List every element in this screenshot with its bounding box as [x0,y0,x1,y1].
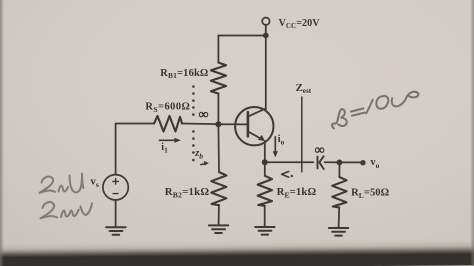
wire [265,25,267,36]
svg-text:RS=600Ω: RS=600Ω [145,102,190,114]
wire [265,36,267,110]
wire [115,200,117,227]
capacitor C2 [318,156,324,169]
svg-text:∞: ∞ [199,106,209,121]
arrow zb [201,161,209,166]
wire [325,161,340,163]
wire [217,124,220,172]
power terminal VCC [262,18,269,25]
wire [218,123,248,125]
wire [182,123,218,126]
resistor RB2 [211,172,226,205]
svg-text:RE=1kΩ: RE=1kΩ [277,186,317,199]
current arrow io [273,137,278,158]
wire [218,35,265,37]
node output [337,160,343,166]
svg-text:RB2=1kΩ: RB2=1kΩ [165,186,210,199]
ground GND1 [106,227,125,235]
ground GND4 [329,228,348,236]
node base [215,121,221,127]
ground GND2 [209,225,228,233]
wire [116,123,154,125]
current arrow ie [282,171,293,177]
annotation vs amplitude 2mv line2 [41,202,58,218]
port boundary dotted line zb [192,85,195,161]
resistor RS [154,116,182,132]
annotation vs amplitude 2mV line1 [40,177,56,193]
wire [338,208,341,228]
impedance probe line Zest [301,97,303,172]
resistor RE [258,176,272,206]
wire [264,162,266,176]
current arrow i1 [160,138,181,143]
wire [217,94,219,125]
svg-text:∞: ∞ [315,142,325,157]
ground GND3 [255,227,274,235]
wire [115,124,117,175]
resistor RL [332,177,346,208]
transistor Q1 [235,107,273,145]
wire [264,141,266,162]
resistor RB1 [211,63,226,94]
svg-text:RB1=16kΩ: RB1=16kΩ [160,68,208,80]
svg-text:RL=50Ω: RL=50Ω [351,188,390,200]
node VCC junction [263,33,269,39]
wire [340,161,361,163]
wire [265,161,314,163]
wire [338,162,340,177]
node emitter [262,159,268,165]
wire [264,206,266,227]
wire [217,36,219,63]
wire [218,205,220,225]
svg-text:VCC=20V: VCC=20V [279,18,321,30]
terminal vo [360,160,365,165]
source VS [103,175,128,200]
annotation beta=100 [332,92,418,129]
